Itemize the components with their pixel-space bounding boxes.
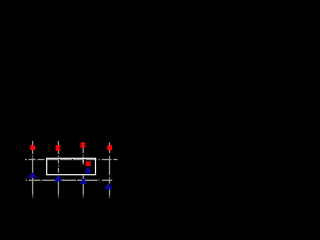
wire net N2 vertical segments: [57, 141, 59, 198]
unconnected endpoint marker M4: [107, 145, 112, 150]
net arrow A3: [84, 167, 91, 172]
unconnected endpoint marker M2: [56, 145, 61, 151]
wire net N3 vertical below component: [82, 175, 84, 197]
unconnected endpoint marker M3: [80, 143, 85, 148]
net arrow A5: [104, 184, 112, 190]
wire net N1 vertical segments: [32, 141, 34, 198]
unconnected endpoint marker M1: [30, 145, 35, 150]
pin P3 vertical stub: [82, 142, 84, 165]
component body outline U1: [47, 158, 96, 174]
wire net H1 horizontal segments: [25, 159, 118, 161]
wire net N4 vertical segments: [109, 143, 111, 198]
pin P3 endpoint highlight: [82, 160, 84, 162]
net arrow A4: [80, 179, 87, 184]
wire net H2 horizontal segments: [26, 179, 112, 181]
net arrow A1: [28, 173, 37, 178]
unconnected pin marker M5 (hourglass): [85, 162, 91, 166]
net arrow A2: [55, 176, 62, 182]
